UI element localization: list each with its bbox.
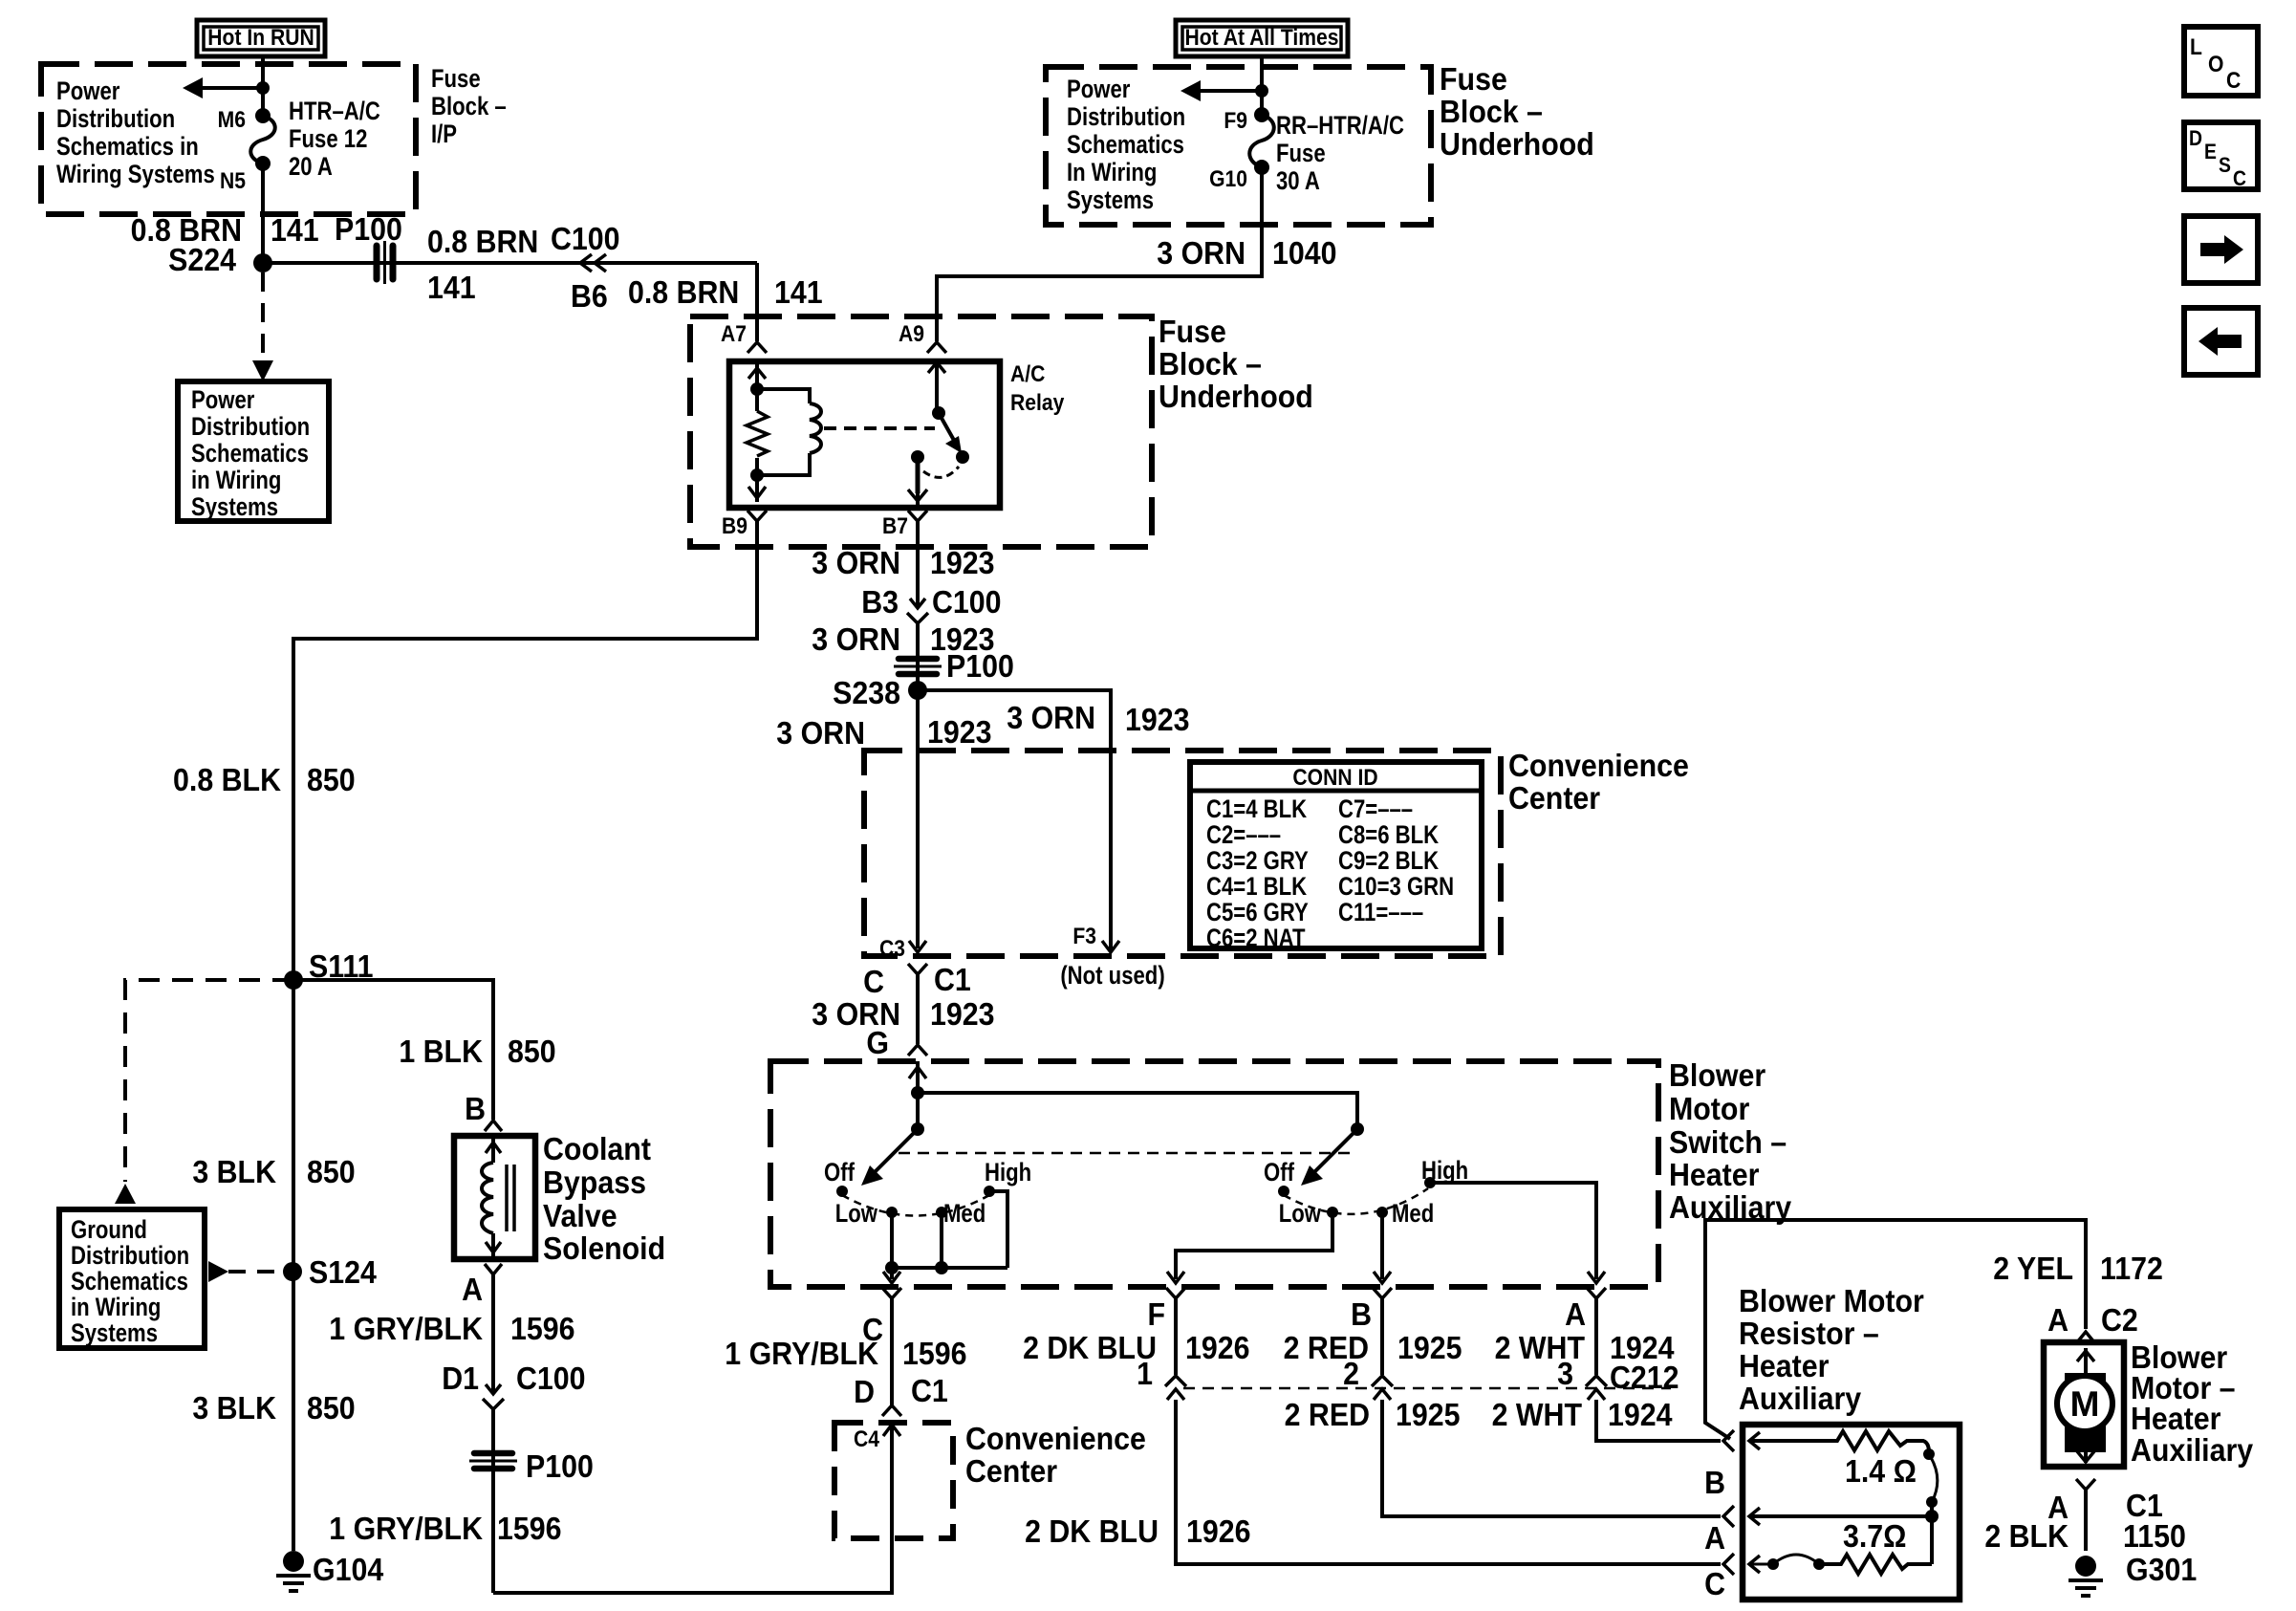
coolant bypass valve solenoid box [454, 1136, 535, 1259]
pin B7 [882, 511, 927, 538]
label 1 GRY/BLK 1596 (below switch) [725, 1336, 966, 1371]
CONN ID table [1190, 762, 1482, 953]
svg-text:Heater: Heater [1739, 1348, 1829, 1383]
svg-text:C212: C212 [1610, 1360, 1679, 1395]
wire C3 through box [916, 690, 920, 948]
label A/C Relay [1010, 361, 1065, 416]
Blower Motor Switch dashed box [770, 1061, 1658, 1287]
relay coil branch wire [748, 361, 766, 482]
right switch Low wire to F [1176, 1212, 1332, 1279]
label Fuse Block - Underhood (relay) [1159, 314, 1313, 414]
svg-text:Power: Power [56, 77, 120, 106]
svg-text:20 A: 20 A [289, 153, 333, 182]
svg-text:Convenience: Convenience [1508, 748, 1689, 783]
pin B of solenoid [465, 1091, 502, 1131]
resistor row C: 3.7 ohm [1749, 1518, 1932, 1574]
button next arrow [2184, 216, 2258, 283]
svg-text:Systems: Systems [71, 1319, 158, 1348]
svg-text:Schematics: Schematics [191, 440, 309, 468]
svg-text:C1: C1 [911, 1373, 948, 1408]
svg-text:C5=6 GRY: C5=6 GRY [1206, 899, 1309, 927]
label Convenience Center (C4) [965, 1421, 1146, 1489]
svg-text:Wiring Systems: Wiring Systems [56, 161, 215, 189]
wire S238 right to F3 branch [918, 690, 1111, 952]
motor pin A C1 [2047, 1479, 2163, 1525]
wire to right switch pivot [918, 1093, 1357, 1129]
connector grommet P100 (on S224 wire) [377, 241, 393, 284]
mechanical link dashed line [899, 1152, 1351, 1155]
Fuse Block Underhood (relay) dashed box [690, 316, 1152, 547]
C212 double chevrons [1165, 1376, 1607, 1400]
connector C C1 below convenience center [863, 962, 971, 999]
wire C100 to P100 [491, 1409, 495, 1593]
svg-text:C1=4 BLK: C1=4 BLK [1206, 795, 1307, 824]
svg-text:3: 3 [1557, 1356, 1573, 1391]
svg-text:B7: B7 [882, 513, 908, 539]
svg-text:Center: Center [1508, 780, 1600, 816]
relay contact travel dashed arc [923, 467, 959, 477]
svg-text:L: L [2190, 34, 2202, 60]
fuse value text [1276, 112, 1404, 196]
svg-text:3 BLK: 3 BLK [192, 1154, 276, 1189]
label 1 GRY/BLK 1596 [329, 1311, 574, 1346]
svg-text:1596: 1596 [902, 1336, 967, 1371]
svg-text:B: B [1704, 1465, 1725, 1500]
svg-text:Heater: Heater [2131, 1401, 2220, 1436]
fuse HTR-A/C Fuse 12 20A [250, 108, 275, 171]
svg-text:2 WHT: 2 WHT [1492, 1397, 1583, 1432]
svg-text:1924: 1924 [1608, 1397, 1673, 1432]
svg-text:Heater: Heater [1669, 1157, 1759, 1192]
fuse value text [289, 98, 380, 182]
label 3 BLK 850 (below S124) [192, 1390, 355, 1426]
svg-text:2 BLK: 2 BLK [1984, 1518, 2069, 1554]
resistor row A [1749, 1508, 1939, 1525]
box Ground Distribution Schematics in Wiring Systems [59, 1209, 205, 1348]
svg-text:1596: 1596 [497, 1511, 562, 1546]
labels 2 DK BLU 1926 [1023, 1330, 1249, 1365]
svg-text:Underhood: Underhood [1440, 126, 1594, 162]
wire G10 down and across to A9 [937, 167, 1262, 341]
relay resistor (zigzag) [747, 411, 768, 456]
pin G of blower switch [866, 1025, 927, 1060]
label Convenience Center [1508, 748, 1689, 816]
svg-text:C1: C1 [934, 962, 971, 997]
wire from Hot At All Times to fuse F9 [1260, 56, 1264, 115]
label 3 ORN 1923 (below B7) [812, 545, 994, 580]
arrow to power distribution (left, underhood) [1180, 80, 1268, 101]
right switch High wire right and down to A [1430, 1183, 1596, 1279]
svg-text:RR–HTR/A/C: RR–HTR/A/C [1276, 112, 1404, 141]
relay switch arm [928, 361, 969, 464]
wire C100 to P100 [916, 623, 920, 690]
wire S224 to the right [263, 261, 757, 265]
right switch contacts [1264, 1157, 1468, 1229]
left switch contacts [824, 1159, 1031, 1229]
Convenience Center (C4) small dashed box [834, 1423, 953, 1538]
splice S111 [284, 948, 374, 990]
left switch pivot and arm [861, 1122, 924, 1186]
relay common contact to B7 [908, 450, 927, 505]
svg-text:2 YEL: 2 YEL [1993, 1251, 2073, 1286]
svg-text:Blower: Blower [1669, 1057, 1765, 1093]
svg-text:C4=1 BLK: C4=1 BLK [1206, 873, 1307, 902]
label 1 GRY/BLK 1596 (below P100) [329, 1511, 561, 1546]
svg-text:1 GRY/BLK: 1 GRY/BLK [329, 1511, 483, 1546]
svg-text:G10: G10 [1209, 166, 1247, 192]
svg-text:1040: 1040 [1272, 235, 1337, 271]
svg-text:S238: S238 [833, 675, 900, 710]
left column: 0.8 BLK 850 label [173, 762, 356, 797]
relay coil [757, 389, 821, 475]
svg-text:A7: A7 [721, 321, 747, 347]
svg-text:Convenience: Convenience [965, 1421, 1146, 1456]
svg-text:850: 850 [307, 1154, 356, 1189]
svg-text:0.8 BLK: 0.8 BLK [173, 762, 281, 797]
svg-text:O: O [2208, 52, 2223, 77]
solenoid coil [482, 1163, 493, 1233]
svg-text:Block –: Block – [1159, 346, 1262, 381]
svg-text:Schematics: Schematics [71, 1268, 188, 1296]
connector D1 C100 (in-line) [442, 1361, 585, 1409]
svg-text:Auxiliary: Auxiliary [2131, 1432, 2254, 1468]
svg-text:Fuse: Fuse [1440, 61, 1507, 97]
Blower Motor Resistor label [1739, 1283, 1924, 1416]
svg-text:C: C [2226, 68, 2241, 94]
svg-text:B: B [1351, 1296, 1372, 1332]
svg-text:1: 1 [1137, 1356, 1153, 1391]
svg-text:A: A [2047, 1302, 2069, 1338]
svg-text:Block –: Block – [1440, 94, 1543, 129]
svg-text:C7=–––: C7=––– [1338, 795, 1413, 824]
label 2 YEL 1172 [1993, 1251, 2163, 1286]
2 YEL tap wire to motor [1705, 1220, 2086, 1439]
F crossing arrows [1147, 1272, 1185, 1332]
svg-text:C4: C4 [854, 1426, 879, 1452]
label Blower Motor - Heater Auxiliary [2131, 1339, 2254, 1468]
wire from Hot In RUN to fuse M6 [261, 56, 265, 116]
svg-text:P100: P100 [335, 211, 402, 247]
svg-text:1923: 1923 [930, 996, 995, 1032]
svg-text:2 RED: 2 RED [1285, 1397, 1370, 1432]
svg-text:850: 850 [307, 1390, 356, 1426]
svg-text:G104: G104 [313, 1552, 384, 1587]
ground G104 [276, 1551, 384, 1591]
svg-text:Fuse: Fuse [431, 65, 481, 94]
svg-text:S224: S224 [168, 242, 236, 277]
svg-text:Off: Off [1264, 1159, 1295, 1187]
label 3 ORN 1923 (F3 branch) [1007, 700, 1189, 737]
svg-text:Schematics: Schematics [1067, 131, 1184, 160]
svg-text:Blower Motor: Blower Motor [1739, 1283, 1924, 1318]
svg-text:C9=2 BLK: C9=2 BLK [1338, 847, 1439, 876]
svg-text:Fuse: Fuse [1159, 314, 1226, 349]
svg-text:C11=–––: C11=––– [1338, 899, 1423, 927]
splice S238 [833, 675, 927, 710]
svg-text:Systems: Systems [1067, 186, 1154, 215]
svg-text:(Not used): (Not used) [1060, 962, 1164, 991]
svg-text:Auxiliary: Auxiliary [1739, 1381, 1862, 1416]
Fuse Block I/P dashed box [41, 64, 416, 214]
svg-text:3 ORN: 3 ORN [812, 621, 900, 657]
svg-text:CONN ID: CONN ID [1292, 765, 1377, 791]
label 0.8 BRN 141 (above S224) [131, 212, 319, 248]
Fuse Block Underhood (top right) dashed box [1046, 67, 1431, 225]
svg-text:D1: D1 [442, 1361, 479, 1396]
svg-text:A: A [462, 1272, 483, 1307]
labels 2 WHT 1924 [1495, 1330, 1675, 1365]
connector B3 C100 (in-line) [861, 584, 1001, 623]
svg-text:Distribution: Distribution [71, 1242, 189, 1271]
svg-text:B6: B6 [571, 278, 608, 314]
svg-text:P100: P100 [526, 1448, 594, 1484]
svg-text:C2: C2 [2101, 1302, 2138, 1338]
left switch output C crossing box [882, 1268, 901, 1405]
svg-text:N5: N5 [220, 168, 246, 194]
svg-text:1150: 1150 [2123, 1518, 2186, 1554]
svg-text:C100: C100 [551, 221, 620, 256]
label 3 BLK 850 (above S124) [192, 1154, 355, 1189]
svg-text:Ground: Ground [71, 1216, 147, 1245]
svg-text:A9: A9 [899, 321, 924, 347]
svg-text:C2=–––: C2=––– [1206, 821, 1281, 850]
box Power Distribution Schematics in Wiring Systems [178, 381, 329, 522]
wire corner down to A7 [755, 263, 759, 341]
svg-text:3 ORN: 3 ORN [1007, 700, 1095, 735]
label 0.8 BRN 141 (right of B6) [628, 274, 823, 310]
label 3 ORN 1923 (below S238 left) [776, 714, 991, 751]
blower motor box [2044, 1342, 2124, 1467]
svg-text:Schematics in: Schematics in [56, 133, 199, 162]
svg-text:M6: M6 [218, 107, 246, 133]
header box "Hot In RUN" [197, 20, 325, 56]
svg-text:E: E [2204, 141, 2217, 163]
button back arrow [2184, 308, 2258, 375]
labels 2 RED 1925 [1284, 1330, 1462, 1365]
label 3 ORN 1923 (above switch) [812, 996, 994, 1032]
left switch bus wiring [885, 1191, 1007, 1274]
svg-text:C: C [863, 964, 884, 999]
svg-text:Fuse: Fuse [1276, 140, 1326, 168]
motor pin A C2 [2047, 1302, 2138, 1342]
svg-text:1 GRY/BLK: 1 GRY/BLK [329, 1311, 483, 1346]
svg-text:Bypass: Bypass [543, 1165, 646, 1200]
splice S224 [168, 242, 272, 277]
resistor pin chevrons outside [1704, 1430, 1734, 1601]
svg-text:1923: 1923 [927, 714, 992, 750]
svg-text:Relay: Relay [1010, 390, 1065, 416]
connector grommet P100 (solenoid wire) [469, 1453, 517, 1469]
svg-text:Off: Off [824, 1159, 856, 1187]
svg-text:30 A: 30 A [1276, 167, 1320, 196]
button LOC [2184, 27, 2258, 96]
label 0.8 BRN C100 (left of B6) [427, 221, 620, 259]
svg-text:3 ORN: 3 ORN [776, 715, 865, 751]
svg-text:C3: C3 [879, 936, 905, 962]
svg-text:Motor: Motor [1669, 1091, 1749, 1126]
svg-text:Power: Power [191, 386, 255, 415]
svg-text:Distribution: Distribution [56, 105, 175, 134]
solenoid core bars [507, 1165, 514, 1231]
connector chevrons B6 C100 on wire [580, 254, 606, 272]
svg-text:C: C [1704, 1566, 1725, 1601]
wire S111 to coolant valve branch [293, 980, 493, 1120]
svg-text:A: A [1565, 1296, 1586, 1332]
right switch Med wire to B [1380, 1212, 1384, 1279]
label "Fuse Block - I/P" [431, 65, 507, 149]
wire B7 down [916, 508, 920, 605]
wire motor to G301 [2084, 1490, 2088, 1551]
svg-text:1926: 1926 [1185, 1330, 1250, 1365]
svg-text:F9: F9 [1224, 108, 1247, 134]
connector grommet P100 (on B7 wire) [894, 659, 942, 674]
relay actuation dashed line [824, 426, 935, 430]
svg-text:A: A [1704, 1520, 1725, 1556]
svg-text:A/C: A/C [1010, 361, 1045, 387]
svg-text:Low: Low [835, 1200, 878, 1229]
svg-text:3 ORN: 3 ORN [1157, 235, 1245, 271]
svg-text:3 ORN: 3 ORN [812, 545, 900, 580]
dashed arrow S224 down to Power Distribution [252, 272, 273, 381]
svg-text:I/P: I/P [431, 120, 457, 149]
svg-text:Med: Med [943, 1200, 986, 1229]
svg-text:Hot In RUN: Hot In RUN [207, 25, 314, 51]
svg-text:Valve: Valve [543, 1198, 617, 1233]
svg-text:P100: P100 [946, 648, 1014, 684]
svg-text:in Wiring: in Wiring [71, 1294, 161, 1322]
solenoid internal wire and arrows [486, 1136, 501, 1259]
svg-text:C3=2 GRY: C3=2 GRY [1206, 847, 1309, 876]
pin C3 with down arrow [879, 936, 926, 962]
pin A9 [899, 321, 946, 353]
pin A of solenoid [462, 1264, 502, 1307]
pin numbers 1 2 3 [1137, 1356, 1573, 1391]
svg-text:141: 141 [774, 274, 823, 310]
label 2 BLK 1150 [1984, 1518, 2185, 1554]
svg-text:1925: 1925 [1396, 1397, 1461, 1432]
svg-text:S: S [2219, 154, 2231, 177]
svg-text:850: 850 [508, 1034, 556, 1069]
svg-text:1926: 1926 [1186, 1513, 1251, 1549]
label Blower Motor Switch - Heater Auxiliary [1669, 1057, 1792, 1225]
svg-text:Solenoid: Solenoid [543, 1230, 665, 1266]
svg-text:2 DK BLU: 2 DK BLU [1025, 1513, 1159, 1549]
svg-text:High: High [985, 1159, 1031, 1187]
wire fuse to S224 [261, 163, 265, 263]
ground G301 [2069, 1552, 2197, 1596]
blower motor resistor box [1743, 1425, 1960, 1600]
svg-text:1172: 1172 [2100, 1251, 2163, 1286]
svg-text:C100: C100 [932, 584, 1002, 620]
wires F B A down to C212 [1176, 1298, 1596, 1375]
svg-text:141: 141 [271, 212, 319, 248]
svg-text:141: 141 [427, 270, 476, 305]
svg-text:C6=2 NAT: C6=2 NAT [1206, 925, 1305, 953]
svg-text:Distribution: Distribution [1067, 103, 1185, 132]
switch feed wire with up arrow [909, 1061, 926, 1129]
svg-text:1923: 1923 [1125, 702, 1190, 737]
A/C relay box [729, 361, 1000, 508]
svg-text:In Wiring: In Wiring [1067, 159, 1157, 187]
svg-text:F3: F3 [1072, 924, 1096, 949]
svg-text:1.4 Ω: 1.4 Ω [1845, 1453, 1917, 1489]
labels second row: 2 DK BLU 1926 [1025, 1513, 1250, 1549]
svg-text:C: C [2233, 167, 2246, 190]
svg-text:Hot At All Times: Hot At All Times [1184, 25, 1338, 51]
pin F3 with down arrow [1072, 924, 1119, 952]
relay down arrow to B9 [748, 487, 766, 498]
labels second row: 2 WHT 1924 [1492, 1397, 1673, 1432]
svg-text:Fuse 12: Fuse 12 [289, 125, 367, 154]
dashed branch S111 to ground distribution [115, 980, 293, 1204]
resistor row B: 1.4 ohm [1749, 1431, 1929, 1489]
svg-text:1 GRY/BLK: 1 GRY/BLK [725, 1336, 878, 1371]
connector D C1 [854, 1373, 948, 1416]
svg-text:Distribution: Distribution [191, 413, 310, 442]
svg-text:C10=3 GRN: C10=3 GRN [1338, 873, 1454, 902]
label 3 ORN 1040 [1157, 235, 1336, 271]
label Fuse Block - Underhood [1440, 61, 1594, 162]
arrow to power distribution (left) [183, 77, 270, 98]
splice S124 [283, 1254, 377, 1290]
svg-text:G: G [866, 1025, 889, 1060]
svg-text:Med: Med [1392, 1200, 1434, 1229]
svg-text:HTR–A/C: HTR–A/C [289, 98, 380, 126]
svg-text:G301: G301 [2126, 1552, 2197, 1587]
label Coolant Bypass Valve Solenoid [543, 1131, 665, 1266]
svg-text:Center: Center [965, 1453, 1057, 1489]
svg-text:1596: 1596 [510, 1311, 575, 1346]
text Power Distribution Schematics In Wiring Systems (underhood box) [1067, 76, 1185, 215]
svg-text:Power: Power [1067, 76, 1131, 104]
labels second row: 2 RED 1925 [1285, 1397, 1461, 1432]
label 3 ORN 1923 (above P100) [812, 621, 994, 657]
svg-text:2: 2 [1343, 1356, 1359, 1391]
svg-text:C8=6 BLK: C8=6 BLK [1338, 821, 1439, 850]
Convenience Center dashed box [864, 751, 1501, 956]
svg-text:1 BLK: 1 BLK [399, 1034, 483, 1069]
svg-text:D: D [2189, 127, 2202, 150]
pin C4 with up arrow [854, 1425, 900, 1451]
svg-text:Coolant: Coolant [543, 1131, 651, 1166]
dashed arrow ground box to S124 [208, 1261, 283, 1282]
svg-text:B: B [465, 1091, 486, 1126]
svg-text:0.8 BRN: 0.8 BRN [628, 274, 739, 310]
wire C1 down to blower switch [916, 974, 920, 1044]
fuse RR-HTR/A/C Fuse 30A [1249, 107, 1274, 175]
svg-text:M: M [2070, 1384, 2100, 1424]
svg-text:F: F [1147, 1296, 1165, 1332]
svg-text:850: 850 [307, 762, 356, 797]
svg-text:3 BLK: 3 BLK [192, 1390, 276, 1426]
svg-text:3.7Ω: 3.7Ω [1843, 1518, 1907, 1554]
motor symbol [2057, 1348, 2112, 1463]
svg-text:1925: 1925 [1397, 1330, 1462, 1365]
svg-text:Switch –: Switch – [1669, 1124, 1787, 1160]
svg-text:S124: S124 [309, 1254, 377, 1290]
wire through C4 box down and left [493, 1425, 892, 1593]
resistor jumper arc with dots [1923, 1448, 1938, 1564]
wire B9 down, across and down left column [293, 508, 757, 1551]
svg-text:Block –: Block – [431, 93, 507, 121]
connector C212 dashed line [1183, 1387, 1671, 1390]
svg-text:D: D [854, 1374, 875, 1409]
svg-text:B3: B3 [861, 584, 899, 620]
header box "Hot At All Times" [1176, 20, 1348, 56]
svg-text:Underhood: Underhood [1159, 379, 1313, 414]
svg-text:in Wiring: in Wiring [191, 467, 281, 495]
svg-text:0.8 BRN: 0.8 BRN [427, 224, 538, 259]
